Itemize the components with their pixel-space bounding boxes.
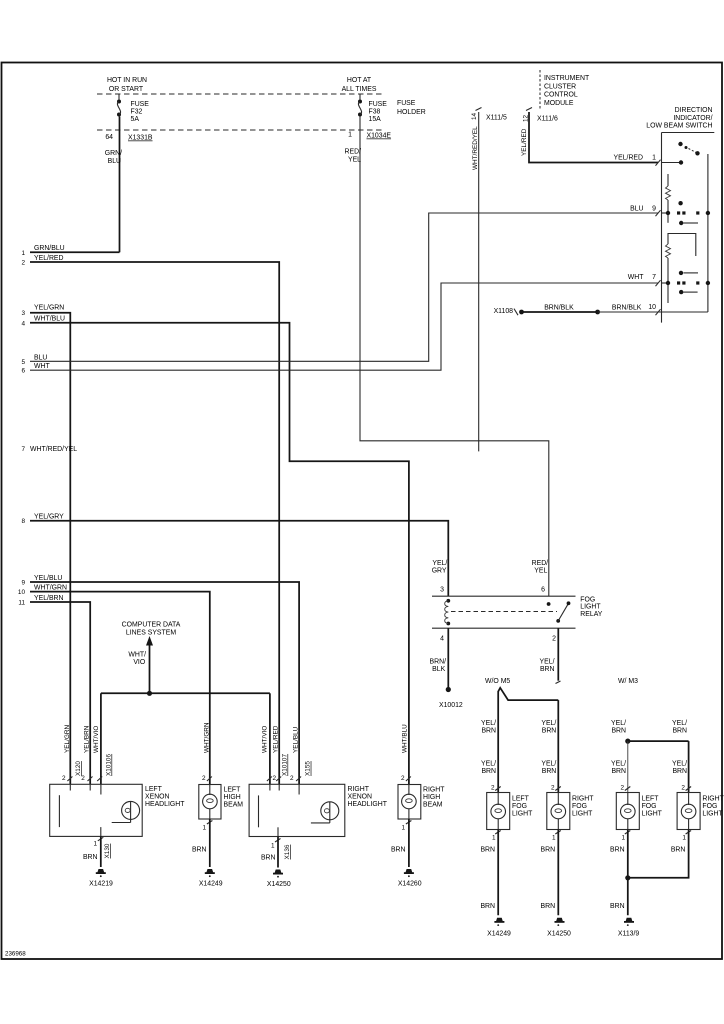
svg-text:2: 2 bbox=[551, 785, 555, 792]
left xenon headlight pins and labels bbox=[62, 725, 113, 783]
svg-text:F38: F38 bbox=[369, 109, 381, 116]
svg-text:WHT/BLU: WHT/BLU bbox=[34, 315, 65, 322]
svg-text:X10106: X10106 bbox=[106, 754, 113, 776]
svg-text:2: 2 bbox=[681, 785, 685, 792]
svg-text:WHT/RED/YEL: WHT/RED/YEL bbox=[30, 446, 77, 453]
svg-text:YEL: YEL bbox=[534, 568, 547, 575]
fog light 3 (left fog light, W/ M3) bbox=[616, 785, 662, 842]
ground X14250 bbox=[267, 870, 291, 889]
svg-text:YEL/GRN: YEL/GRN bbox=[34, 305, 64, 312]
svg-text:2: 2 bbox=[62, 775, 66, 782]
svg-text:X155: X155 bbox=[305, 761, 312, 776]
svg-text:2: 2 bbox=[491, 785, 495, 792]
xenon bulb DX2 bbox=[321, 802, 339, 820]
svg-text:FUSE: FUSE bbox=[397, 100, 416, 107]
svg-text:BRN: BRN bbox=[541, 847, 556, 854]
svg-text:9: 9 bbox=[21, 580, 25, 587]
svg-text:1: 1 bbox=[552, 835, 556, 842]
svg-text:LEFT: LEFT bbox=[145, 786, 163, 793]
svg-text:RIGHT: RIGHT bbox=[423, 787, 445, 794]
switch common rail bbox=[707, 154, 709, 312]
fog 1 ground wire BRN to X14249 bbox=[497, 830, 499, 916]
svg-text:LEFT: LEFT bbox=[512, 796, 530, 803]
svg-text:BRN: BRN bbox=[542, 728, 557, 735]
svg-text:X111/6: X111/6 bbox=[537, 116, 558, 123]
wire BRN/BLK splice X1108 to switch pin 10 bbox=[494, 304, 708, 315]
svg-text:GRN/BLU: GRN/BLU bbox=[34, 245, 65, 252]
svg-text:X1108: X1108 bbox=[494, 308, 514, 315]
svg-text:BLK: BLK bbox=[432, 666, 445, 673]
svg-text:WHT/VIO: WHT/VIO bbox=[93, 726, 100, 753]
svg-text:1: 1 bbox=[202, 825, 206, 832]
svg-text:1: 1 bbox=[271, 843, 275, 850]
svg-text:YEL/: YEL/ bbox=[481, 720, 496, 727]
connector ticks at switch pins bbox=[656, 160, 661, 316]
svg-text:BRN: BRN bbox=[611, 728, 626, 735]
svg-text:1: 1 bbox=[93, 841, 97, 848]
wire GRN/BLU from fuse F32 bbox=[119, 117, 121, 253]
svg-text:BLU: BLU bbox=[630, 205, 643, 212]
svg-text:XENON: XENON bbox=[348, 794, 373, 801]
svg-text:BRN: BRN bbox=[541, 903, 556, 910]
svg-text:1: 1 bbox=[21, 250, 25, 257]
svg-text:YEL/: YEL/ bbox=[541, 720, 556, 727]
svg-text:HEADLIGHT: HEADLIGHT bbox=[145, 801, 185, 808]
right xenon headlight bbox=[249, 784, 388, 836]
svg-text:XENON: XENON bbox=[145, 794, 170, 801]
svg-text:BRN: BRN bbox=[672, 728, 687, 735]
fog 2 ground wire BRN to X14250 bbox=[557, 830, 559, 916]
svg-text:YEL/BRN: YEL/BRN bbox=[83, 725, 90, 753]
svg-text:BRN: BRN bbox=[481, 768, 496, 775]
svg-text:8: 8 bbox=[21, 518, 25, 525]
svg-text:2: 2 bbox=[21, 260, 25, 267]
svg-text:GRY: GRY bbox=[432, 568, 447, 575]
ground X14250 (fog) bbox=[547, 918, 571, 938]
svg-text:ALL TIMES: ALL TIMES bbox=[342, 86, 377, 93]
svg-text:WHT/GRN: WHT/GRN bbox=[34, 585, 67, 592]
svg-text:WHT/RED/YEL: WHT/RED/YEL bbox=[472, 126, 479, 170]
svg-text:X14250: X14250 bbox=[267, 881, 291, 888]
svg-text:X120: X120 bbox=[75, 761, 82, 776]
svg-text:YEL/RED: YEL/RED bbox=[273, 725, 280, 753]
svg-text:2: 2 bbox=[272, 775, 276, 782]
svg-text:BEAM: BEAM bbox=[224, 802, 244, 809]
svg-text:3: 3 bbox=[440, 587, 444, 594]
svg-text:INSTRUMENT: INSTRUMENT bbox=[544, 75, 590, 82]
svg-text:HIGH: HIGH bbox=[423, 794, 440, 801]
svg-text:WHT: WHT bbox=[34, 363, 50, 370]
connector X111/5 pin 14 bbox=[476, 108, 482, 111]
wire WHT/VIO data bus between xenon headlights bbox=[101, 692, 270, 694]
svg-text:RIGHT: RIGHT bbox=[702, 796, 724, 803]
svg-text:FUSE: FUSE bbox=[369, 101, 388, 108]
svg-text:FOG: FOG bbox=[572, 803, 587, 810]
svg-text:2: 2 bbox=[202, 775, 206, 782]
switch bracket and resistor element (pin 7 branch) bbox=[666, 234, 696, 304]
svg-text:BRN/: BRN/ bbox=[430, 659, 447, 666]
switch resistor element (pin 9 branch) bbox=[666, 174, 671, 223]
fuse F38 15A bbox=[358, 94, 387, 123]
right high beam ground wire BRN to X14260 bbox=[391, 819, 411, 867]
wire YEL/BRN fog feed funnel bbox=[498, 688, 558, 793]
fog 3 ground wire BRN to X113/9 bbox=[627, 830, 629, 916]
svg-text:HEADLIGHT: HEADLIGHT bbox=[348, 801, 388, 808]
svg-text:2: 2 bbox=[621, 785, 625, 792]
svg-text:RED/: RED/ bbox=[345, 149, 362, 156]
svg-text:LIGHT: LIGHT bbox=[702, 811, 723, 818]
svg-text:X1034E: X1034E bbox=[367, 133, 392, 140]
svg-text:CLUSTER: CLUSTER bbox=[544, 84, 576, 91]
svg-text:YEL/BLU: YEL/BLU bbox=[293, 726, 300, 753]
svg-text:1: 1 bbox=[652, 155, 656, 162]
svg-text:BRN: BRN bbox=[192, 847, 207, 854]
svg-text:X10012: X10012 bbox=[439, 702, 463, 709]
svg-text:OR START: OR START bbox=[109, 86, 144, 93]
svg-text:BLU: BLU bbox=[108, 158, 121, 165]
svg-text:X130: X130 bbox=[104, 843, 111, 858]
svg-text:YEL: YEL bbox=[348, 157, 361, 164]
svg-text:1: 1 bbox=[401, 825, 405, 832]
svg-text:10: 10 bbox=[648, 304, 656, 311]
svg-text:BEAM: BEAM bbox=[423, 802, 443, 809]
wire YEL/RED from X111/6 to switch pin 1 bbox=[529, 112, 658, 163]
svg-text:WHT/BLU: WHT/BLU bbox=[402, 724, 409, 753]
svg-text:5: 5 bbox=[21, 359, 25, 366]
svg-text:X1331B: X1331B bbox=[128, 135, 153, 142]
svg-text:BRN: BRN bbox=[542, 768, 557, 775]
svg-text:FUSE: FUSE bbox=[131, 101, 150, 108]
svg-text:2: 2 bbox=[552, 636, 556, 643]
svg-text:COMPUTER DATA: COMPUTER DATA bbox=[122, 622, 181, 629]
svg-text:X113/9: X113/9 bbox=[618, 930, 639, 937]
svg-text:WHT/GRN: WHT/GRN bbox=[204, 722, 211, 753]
svg-text:FOG: FOG bbox=[580, 597, 595, 604]
svg-text:RIGHT: RIGHT bbox=[348, 786, 370, 793]
svg-text:YEL/: YEL/ bbox=[541, 761, 556, 768]
svg-text:RELAY: RELAY bbox=[580, 611, 602, 618]
right xenon headlight pins and labels bbox=[262, 725, 312, 782]
wire WHT/RED/YEL from X111/5 bbox=[478, 112, 480, 451]
switch rotary contact (pin 1) bbox=[662, 142, 700, 165]
instrument cluster control module (dashed) bbox=[539, 70, 541, 110]
svg-text:BRN: BRN bbox=[480, 847, 495, 854]
svg-text:YEL/: YEL/ bbox=[432, 560, 447, 567]
fuse F32 5A bbox=[117, 94, 149, 123]
svg-text:X111/5: X111/5 bbox=[486, 115, 507, 122]
svg-text:W/O M5: W/O M5 bbox=[485, 678, 510, 685]
svg-text:X14219: X14219 bbox=[89, 881, 113, 888]
fuse box dashed outline bbox=[97, 94, 382, 130]
svg-text:YEL/: YEL/ bbox=[672, 761, 687, 768]
wire RED/YEL from fuse F38 down and over to relay pin 6 bbox=[360, 117, 549, 597]
svg-text:LINES SYSTEM: LINES SYSTEM bbox=[126, 630, 176, 637]
svg-text:HOT AT: HOT AT bbox=[347, 77, 372, 84]
svg-text:YEL/: YEL/ bbox=[611, 720, 626, 727]
svg-text:YEL/: YEL/ bbox=[611, 761, 626, 768]
svg-text:5A: 5A bbox=[131, 116, 140, 123]
switch contact row pin 9 bbox=[662, 201, 711, 225]
relay coil bbox=[445, 599, 450, 626]
svg-text:YEL/: YEL/ bbox=[540, 659, 555, 666]
left xenon ground wire BRN to X14219 bbox=[83, 836, 111, 867]
direction indicator / low beam switch box bbox=[662, 133, 715, 323]
svg-text:FOG: FOG bbox=[702, 803, 717, 810]
computer data lines system arrow bbox=[122, 622, 181, 694]
svg-text:LEFT: LEFT bbox=[224, 787, 242, 794]
svg-text:1: 1 bbox=[682, 835, 686, 842]
svg-text:DIRECTION: DIRECTION bbox=[675, 107, 713, 114]
svg-text:MODULE: MODULE bbox=[544, 100, 574, 107]
wire YEL/BRN from relay pin 2 bbox=[557, 628, 559, 681]
svg-text:HOLDER: HOLDER bbox=[397, 109, 426, 116]
fog light 2 (right fog light) bbox=[547, 785, 594, 842]
svg-text:CONTROL: CONTROL bbox=[544, 92, 578, 99]
svg-text:64: 64 bbox=[105, 134, 113, 141]
svg-text:X136: X136 bbox=[284, 844, 291, 859]
svg-text:1: 1 bbox=[622, 835, 626, 842]
fog light 4 (right fog light, W/ M3) bbox=[677, 785, 724, 842]
svg-text:4: 4 bbox=[21, 320, 25, 327]
svg-text:YEL/GRY: YEL/GRY bbox=[34, 514, 64, 521]
svg-text:LIGHT: LIGHT bbox=[512, 811, 533, 818]
svg-text:BRN: BRN bbox=[391, 847, 406, 854]
svg-text:2: 2 bbox=[290, 775, 294, 782]
svg-text:BLU: BLU bbox=[34, 354, 47, 361]
svg-text:6: 6 bbox=[21, 368, 25, 375]
svg-text:7: 7 bbox=[652, 274, 656, 281]
svg-text:LOW BEAM SWITCH: LOW BEAM SWITCH bbox=[646, 123, 712, 130]
svg-text:LEFT: LEFT bbox=[642, 796, 660, 803]
svg-text:WHT/: WHT/ bbox=[128, 652, 146, 659]
ground X113/9 bbox=[618, 918, 639, 938]
svg-text:W/ M3: W/ M3 bbox=[618, 678, 638, 685]
svg-text:9: 9 bbox=[652, 205, 656, 212]
svg-text:F32: F32 bbox=[131, 109, 143, 116]
svg-text:BRN: BRN bbox=[610, 903, 625, 910]
svg-text:FOG: FOG bbox=[642, 803, 657, 810]
svg-text:BRN: BRN bbox=[672, 768, 687, 775]
wire YEL/BRN feed fogs 3-4 (W/ M3) bbox=[625, 739, 688, 793]
svg-text:RED/: RED/ bbox=[532, 560, 549, 567]
relay link (dashed) bbox=[451, 611, 557, 613]
right high beam bbox=[398, 724, 445, 819]
svg-text:HOT IN RUN: HOT IN RUN bbox=[107, 77, 147, 84]
ground X14219 bbox=[89, 869, 113, 888]
svg-text:6: 6 bbox=[541, 587, 545, 594]
fog light 1 (left fog light) bbox=[487, 785, 533, 842]
svg-text:BRN: BRN bbox=[261, 855, 276, 862]
svg-text:BRN: BRN bbox=[671, 847, 686, 854]
svg-text:INDICATOR/: INDICATOR/ bbox=[673, 115, 712, 122]
ground X14249 (fog) bbox=[487, 918, 511, 938]
svg-text:HIGH: HIGH bbox=[224, 794, 241, 801]
wire BRN/BLK from relay pin 4 to splice X10012 bbox=[447, 628, 449, 689]
svg-text:X14249: X14249 bbox=[487, 930, 511, 937]
svg-text:BRN: BRN bbox=[540, 666, 555, 673]
fog 4 ground wire BRN joins fog 3 ground bbox=[628, 830, 689, 878]
svg-text:236968: 236968 bbox=[5, 951, 26, 958]
svg-text:LIGHT: LIGHT bbox=[580, 604, 601, 611]
svg-text:WHT/VIO: WHT/VIO bbox=[262, 726, 269, 753]
svg-text:YEL/: YEL/ bbox=[672, 720, 687, 727]
svg-text:BRN: BRN bbox=[611, 768, 626, 775]
connector X111/6 pin 12 bbox=[526, 108, 532, 111]
relay contact bbox=[547, 601, 571, 622]
svg-text:YEL/GRN: YEL/GRN bbox=[64, 725, 71, 753]
svg-text:1: 1 bbox=[492, 835, 496, 842]
svg-text:X14249: X14249 bbox=[199, 881, 223, 888]
left high beam ground wire BRN to X14249 bbox=[192, 819, 212, 867]
svg-text:X14250: X14250 bbox=[547, 930, 571, 937]
svg-text:YEL/RED: YEL/RED bbox=[521, 128, 528, 156]
svg-text:RIGHT: RIGHT bbox=[572, 796, 594, 803]
svg-text:YEL/BLU: YEL/BLU bbox=[34, 575, 62, 582]
ground X14249 bbox=[199, 869, 223, 888]
svg-text:LIGHT: LIGHT bbox=[642, 811, 663, 818]
svg-text:FOG: FOG bbox=[512, 803, 527, 810]
svg-text:10: 10 bbox=[18, 589, 26, 596]
svg-text:BRN: BRN bbox=[83, 854, 98, 861]
svg-text:4: 4 bbox=[440, 636, 444, 643]
svg-text:14: 14 bbox=[471, 112, 478, 120]
svg-text:X14260: X14260 bbox=[398, 881, 422, 888]
svg-text:X10107: X10107 bbox=[282, 754, 289, 776]
svg-text:15A: 15A bbox=[369, 116, 382, 123]
svg-text:VIO: VIO bbox=[133, 659, 146, 666]
high beam bulb left bbox=[209, 785, 211, 796]
ground X14260 bbox=[398, 869, 422, 888]
xenon bulb DX1 bbox=[122, 801, 140, 819]
switch contact row pin 7 bbox=[662, 271, 711, 295]
left xenon headlight bbox=[50, 784, 186, 836]
high beam bulb right bbox=[408, 785, 410, 796]
svg-text:GRN/: GRN/ bbox=[105, 150, 122, 157]
left high beam bbox=[199, 722, 243, 819]
svg-text:3: 3 bbox=[21, 310, 25, 317]
svg-text:YEL/RED: YEL/RED bbox=[614, 155, 644, 162]
svg-text:7: 7 bbox=[21, 446, 25, 453]
svg-text:11: 11 bbox=[18, 600, 25, 607]
svg-text:BRN/BLK: BRN/BLK bbox=[544, 305, 574, 312]
fog light relay bbox=[432, 596, 603, 628]
svg-text:LIGHT: LIGHT bbox=[572, 811, 593, 818]
svg-text:BRN: BRN bbox=[481, 728, 496, 735]
svg-text:WHT: WHT bbox=[628, 274, 644, 281]
svg-text:2: 2 bbox=[401, 775, 405, 782]
svg-text:1: 1 bbox=[348, 132, 352, 139]
svg-text:BRN/BLK: BRN/BLK bbox=[612, 305, 642, 312]
svg-text:YEL/BRN: YEL/BRN bbox=[34, 595, 64, 602]
svg-text:BRN: BRN bbox=[610, 847, 625, 854]
right xenon ground wire BRN to X14250 bbox=[261, 837, 291, 868]
svg-text:YEL/: YEL/ bbox=[481, 761, 496, 768]
svg-text:BRN: BRN bbox=[480, 903, 495, 910]
